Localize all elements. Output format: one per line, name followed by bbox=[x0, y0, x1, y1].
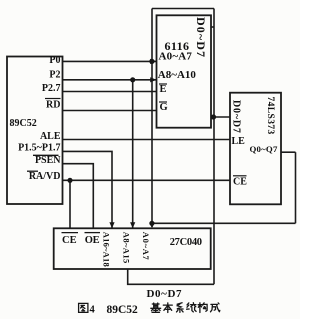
wire CE drop to 27C040 bbox=[69, 180, 71, 228]
svg-text:4: 4 bbox=[90, 305, 96, 316]
caption glyph 本 bbox=[163, 303, 172, 313]
wire PSEN to OE bbox=[63, 164, 94, 229]
mcu 89C52 bbox=[7, 57, 63, 205]
svg-text:P2: P2 bbox=[49, 70, 60, 81]
caption glyph 基 bbox=[151, 303, 161, 312]
wire D0~D7 6116 to 74LS373 bbox=[211, 116, 230, 118]
svg-text:P2.7: P2.7 bbox=[42, 83, 61, 94]
svg-text:89C52: 89C52 bbox=[10, 118, 37, 129]
svg-text:E: E bbox=[160, 84, 167, 95]
latch U 74LS373 bbox=[230, 93, 281, 205]
wire 27C040 D0~D7 bottom U bbox=[128, 269, 214, 284]
wire Q0~Q7 stub bbox=[281, 151, 296, 153]
node D0~D7 junction bbox=[211, 114, 216, 119]
arrow into 27C040 A0~A7 bbox=[149, 222, 154, 228]
svg-text:Q0~Q7: Q0~Q7 bbox=[250, 144, 278, 154]
caption glyph 统 bbox=[187, 303, 197, 312]
svg-text:LE: LE bbox=[232, 136, 246, 147]
wire Q0~Q7 right vertical bbox=[295, 152, 297, 223]
svg-text:A0~A7: A0~A7 bbox=[159, 51, 193, 63]
arrow into 6116 A8~A10 bbox=[150, 77, 156, 82]
ram 6116 bbox=[157, 15, 212, 127]
svg-text:D0~D7: D0~D7 bbox=[194, 17, 208, 58]
wire data bus left vertical bbox=[151, 9, 153, 228]
wire A8~A15 drop to 27C040 bbox=[132, 80, 134, 229]
svg-text:G: G bbox=[160, 102, 168, 113]
svg-text:74LS373: 74LS373 bbox=[265, 97, 275, 135]
svg-text:P1.5~P1.7: P1.5~P1.7 bbox=[18, 143, 60, 154]
wire bus loop right vertical bbox=[213, 9, 215, 285]
caption glyph 系 bbox=[177, 303, 184, 313]
wire P1.5-P1.7 horizontal bbox=[63, 151, 113, 228]
wire Q0~Q7 bottom horizontal bbox=[152, 222, 296, 224]
node RA/VD junction bbox=[67, 178, 72, 183]
wire bus loop top bbox=[152, 8, 214, 10]
wire 6116 D0~D7 stub bbox=[211, 26, 214, 28]
svg-text:A0~A7: A0~A7 bbox=[141, 232, 151, 261]
wire RD to 6116 G bbox=[63, 110, 157, 112]
node P0 bus junction bbox=[149, 59, 154, 64]
caption 图4 89C52 基本系统构成 bbox=[79, 303, 220, 316]
caption glyph 成 bbox=[211, 303, 220, 312]
node Q0~Q7 junction bbox=[149, 221, 154, 226]
svg-text:89C52: 89C52 bbox=[107, 304, 139, 316]
caption glyph 图 bbox=[79, 303, 88, 312]
arrow into 6116 A0~A7 bbox=[150, 59, 156, 64]
caption glyph 构 bbox=[198, 303, 207, 313]
svg-text:D0~D7: D0~D7 bbox=[147, 288, 183, 300]
svg-text:PSEN: PSEN bbox=[35, 155, 61, 166]
wire ALE to 74LS373 LE bbox=[63, 139, 231, 141]
svg-text:A8~A15: A8~A15 bbox=[122, 232, 132, 264]
svg-text:ALE: ALE bbox=[40, 131, 61, 142]
wire P2.7 to 6116 E bbox=[63, 91, 157, 93]
svg-text:OE: OE bbox=[85, 235, 100, 246]
arrow into 27C040 A8~A15 bbox=[130, 222, 135, 228]
svg-text:CE: CE bbox=[233, 177, 247, 188]
wire RA/VD to 74LS373 CE bbox=[63, 179, 231, 181]
eprom 27C040 bbox=[54, 228, 211, 269]
svg-text:D0~D7: D0~D7 bbox=[231, 100, 242, 134]
node P2 junction bbox=[130, 77, 135, 82]
svg-text:27C040: 27C040 bbox=[170, 237, 202, 248]
svg-text:RD: RD bbox=[46, 100, 60, 111]
svg-text:CE: CE bbox=[62, 235, 77, 246]
svg-text:A16~A18: A16~A18 bbox=[102, 232, 112, 267]
svg-text:P0: P0 bbox=[49, 55, 60, 66]
wire P2 to 6116 A8~A10 bbox=[63, 79, 157, 81]
svg-text:RA/VD: RA/VD bbox=[29, 171, 61, 182]
wire P0 to 6116 A0~A7 bbox=[63, 60, 157, 62]
svg-text:A8~A10: A8~A10 bbox=[158, 69, 197, 81]
arrow into 27C040 A16~A18 bbox=[109, 222, 114, 228]
